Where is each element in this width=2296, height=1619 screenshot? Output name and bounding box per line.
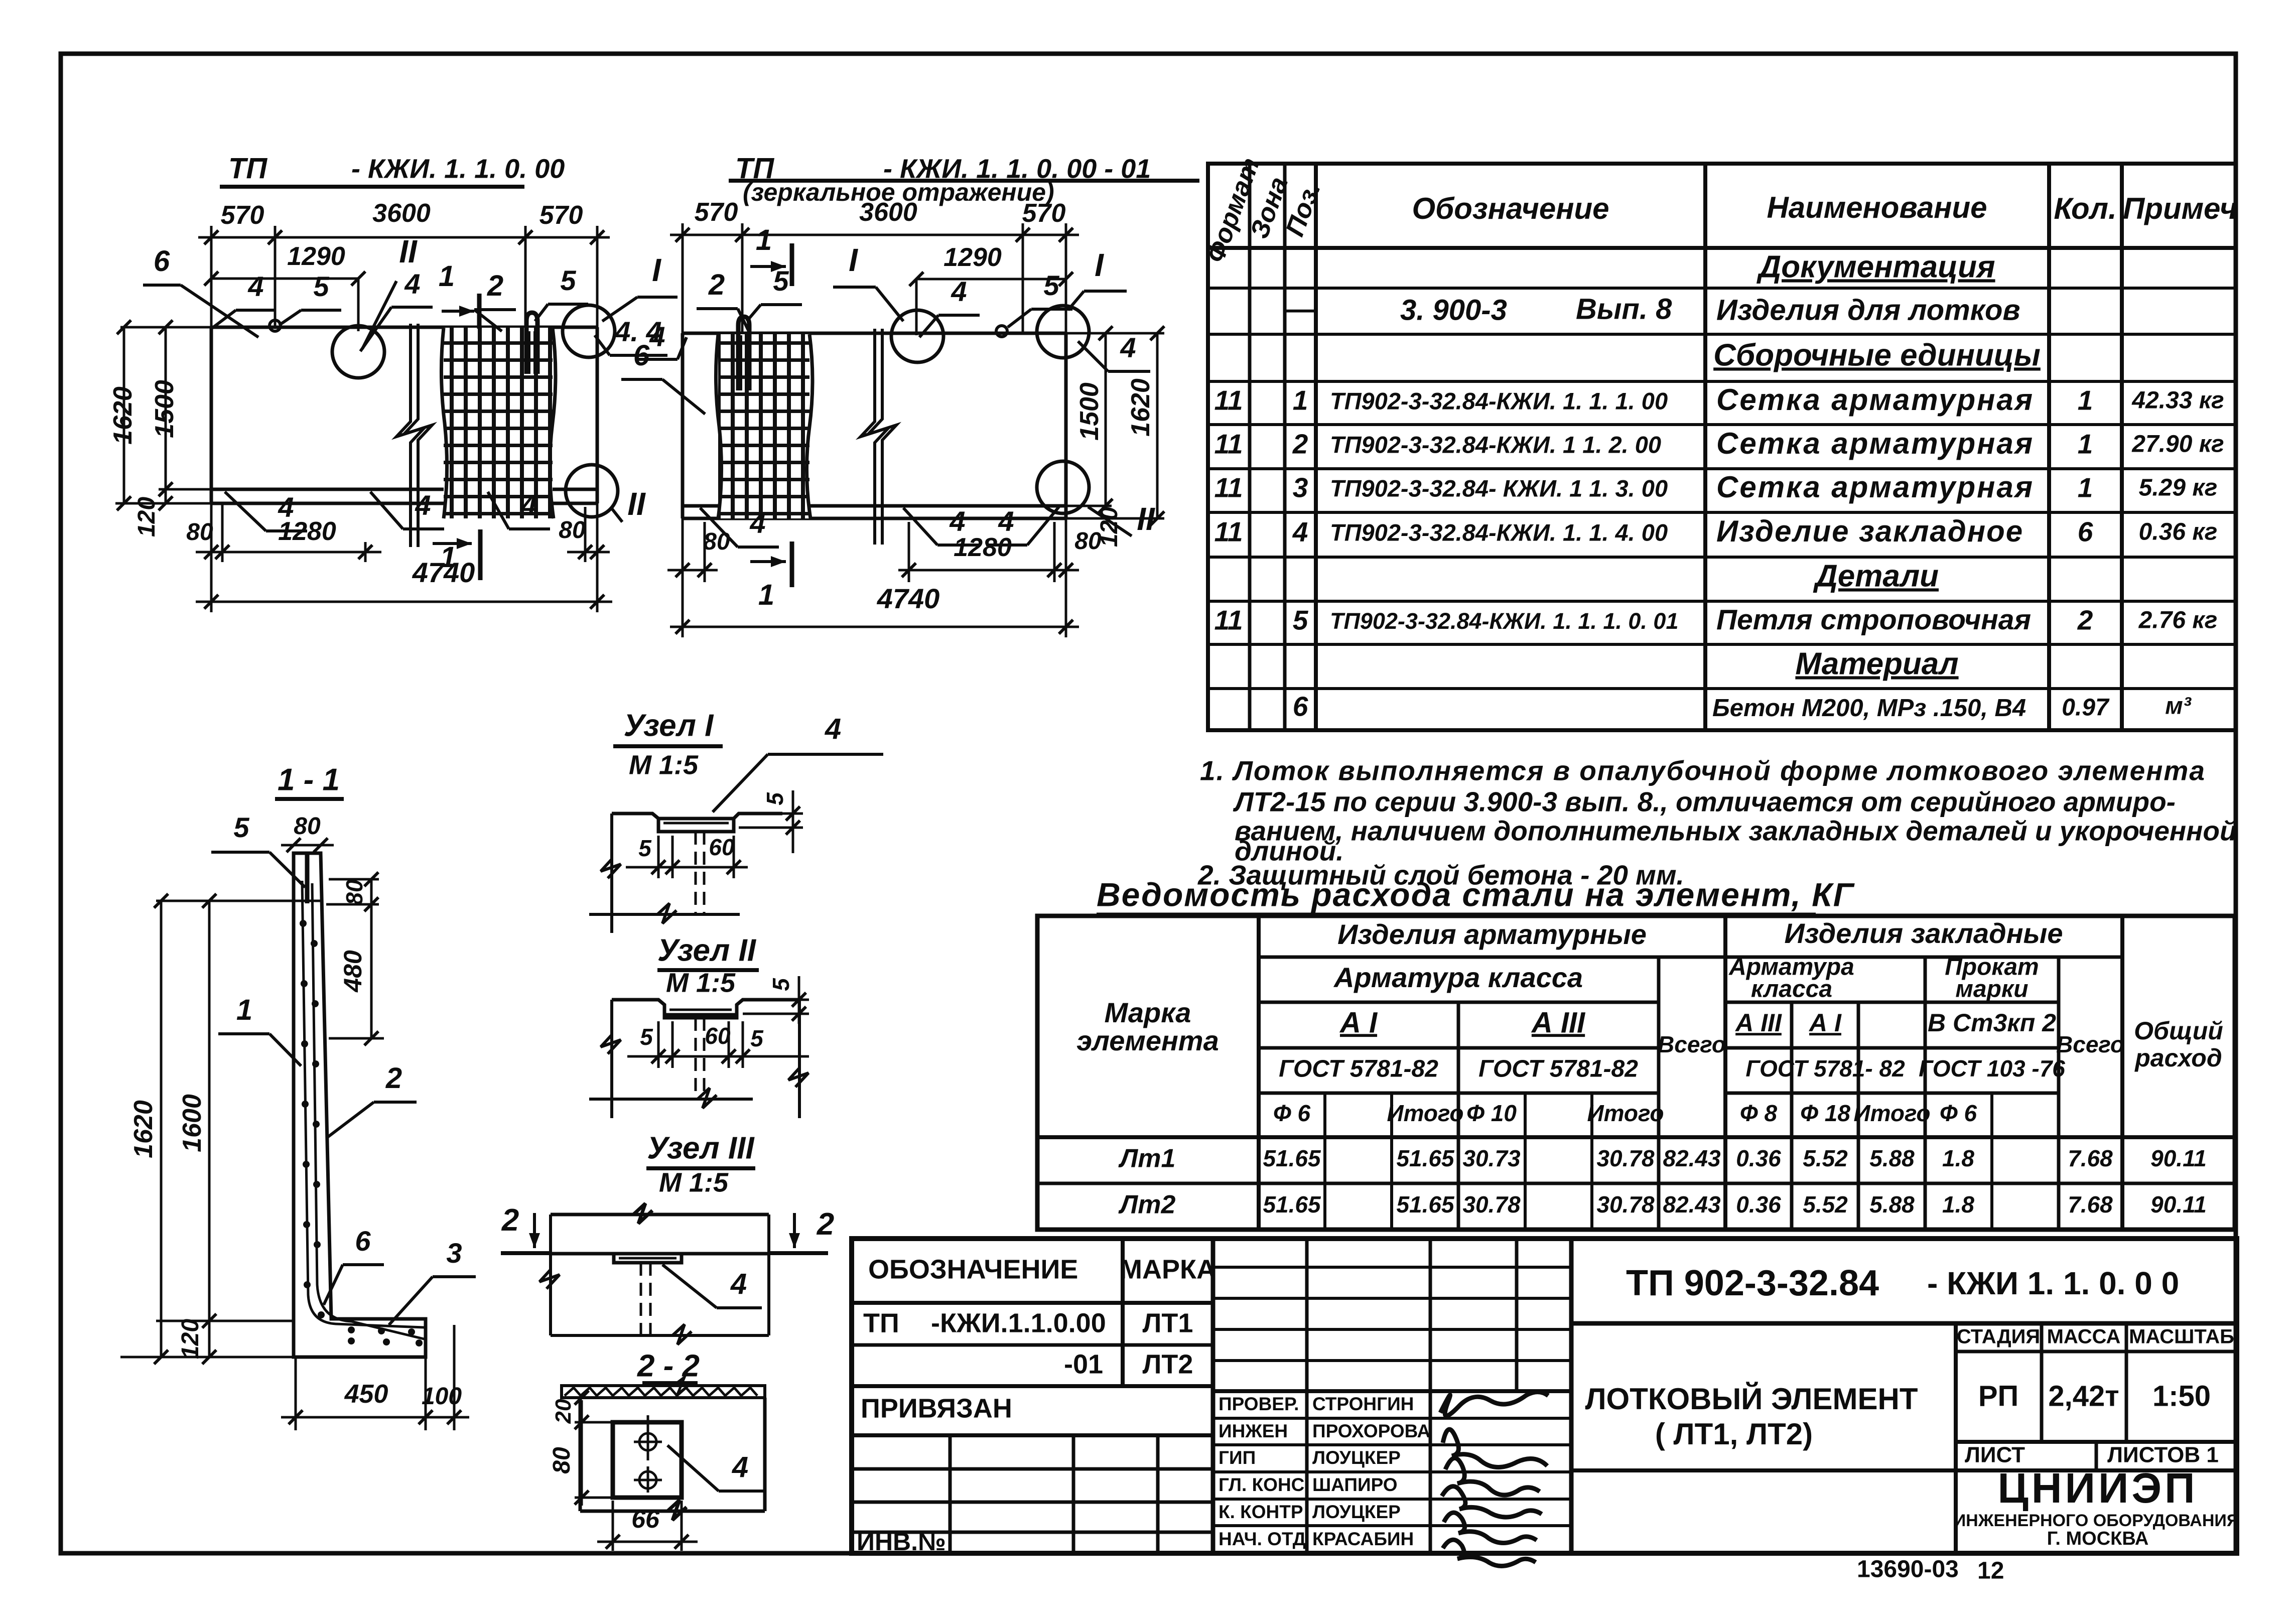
svg-text:4: 4 (1292, 516, 1308, 548)
svg-text:1: 1 (236, 994, 252, 1026)
svg-text:27.90 кг: 27.90 кг (2131, 431, 2224, 458)
signature rows labels (1219, 1394, 1430, 1549)
svg-text:ЦНИИЭП: ЦНИИЭП (1998, 1464, 2198, 1512)
svg-text:ГОСТ 103 -76: ГОСТ 103 -76 (1919, 1055, 2065, 1082)
svg-text:1290: 1290 (287, 242, 345, 271)
svg-text:90.11: 90.11 (2150, 1191, 2207, 1218)
svg-text:Узел II: Узел II (657, 933, 757, 968)
svg-text:Петля строповочная: Петля строповочная (1716, 604, 2031, 636)
svg-text:2 - 2: 2 - 2 (637, 1348, 700, 1383)
uzel I slab and plate (589, 814, 782, 933)
svg-text:1290: 1290 (943, 243, 1002, 272)
svg-text:1620: 1620 (1126, 378, 1155, 437)
svg-text:480: 480 (339, 950, 367, 993)
svg-text:12: 12 (1977, 1558, 2004, 1584)
svg-text:М 1:5: М 1:5 (659, 1167, 729, 1197)
svg-text:4: 4 (1120, 332, 1136, 363)
svg-text:5: 5 (313, 271, 329, 302)
svg-text:МАССА: МАССА (2047, 1326, 2121, 1348)
bottom dim 66 on 2-2 (597, 1501, 698, 1551)
svg-text:5: 5 (560, 264, 576, 296)
svg-text:Лт2: Лт2 (1118, 1190, 1176, 1220)
svg-text:120: 120 (177, 1319, 204, 1359)
overall dim 4740 plan2 (670, 626, 1079, 628)
svg-text:I: I (849, 242, 858, 278)
svg-text:4: 4 (415, 489, 431, 521)
svg-text:51.65: 51.65 (1263, 1191, 1321, 1218)
svg-text:5: 5 (762, 792, 788, 805)
svg-text:5.88: 5.88 (1869, 1145, 1915, 1171)
svg-text:5.29 кг: 5.29 кг (2139, 475, 2218, 501)
dim 80 wall thickness section (281, 844, 334, 847)
svg-text:НАЧ. ОТД: НАЧ. ОТД (1219, 1529, 1306, 1549)
svg-text:4: 4 (730, 1268, 747, 1300)
svg-text:90.11: 90.11 (2150, 1145, 2207, 1171)
svg-text:Изделие закладное: Изделие закладное (1716, 514, 2023, 548)
section mark 1 bottom plan1 (478, 529, 483, 580)
svg-text:570: 570 (221, 201, 264, 230)
element outline plan 2 (683, 333, 1066, 518)
svg-text:Обозначение: Обозначение (1412, 192, 1609, 225)
svg-text:570: 570 (695, 198, 738, 227)
dim 1290 plan1 (211, 278, 358, 280)
svg-text:5: 5 (773, 265, 789, 297)
svg-text:120: 120 (133, 497, 160, 537)
svg-text:- КЖИ. 1. 1. 0. 00: - КЖИ. 1. 1. 0. 00 (351, 154, 565, 184)
svg-text:СТРОНГИН: СТРОНГИН (1312, 1394, 1414, 1414)
hatched screed strip 2-2 (562, 1377, 765, 1398)
svg-text:4740: 4740 (412, 557, 475, 588)
svg-text:4: 4 (949, 505, 965, 537)
svg-text:1: 1 (439, 260, 455, 293)
svg-text:80: 80 (186, 519, 213, 546)
svg-text:Материал: Материал (1795, 646, 1958, 681)
svg-text:30.73: 30.73 (1462, 1145, 1521, 1171)
svg-text:5.52: 5.52 (1803, 1145, 1848, 1171)
section mark 1 top plan2 (790, 243, 794, 286)
svg-text:Ф 10: Ф 10 (1466, 1100, 1517, 1126)
svg-text:5: 5 (750, 1025, 764, 1051)
svg-text:80: 80 (703, 528, 730, 555)
svg-text:ТП: ТП (228, 152, 267, 185)
svg-text:МАРКА: МАРКА (1120, 1254, 1216, 1284)
svg-text:66: 66 (631, 1505, 660, 1533)
svg-text:1280: 1280 (278, 517, 336, 546)
svg-text:I: I (1095, 247, 1104, 283)
svg-text:элемента: элемента (1076, 1025, 1219, 1056)
svg-text:11: 11 (1214, 385, 1243, 416)
svg-text:0.36: 0.36 (1736, 1145, 1781, 1171)
svg-text:100: 100 (422, 1383, 462, 1410)
svg-text:Итого: Итого (1854, 1100, 1931, 1126)
section mark 1 top plan1 (477, 294, 482, 329)
svg-text:51.65: 51.65 (1396, 1145, 1455, 1171)
bottom dim 80/1280 plan1 (196, 503, 381, 562)
svg-text:ЛТ2: ЛТ2 (1143, 1349, 1193, 1379)
svg-text:—: — (1285, 293, 1315, 325)
svg-text:4740: 4740 (877, 583, 940, 614)
svg-text:ПРОХОРОВА: ПРОХОРОВА (1312, 1421, 1430, 1441)
title block left texts (857, 1254, 1216, 1556)
svg-text:82.43: 82.43 (1663, 1145, 1721, 1171)
lifting loop plan1 (526, 313, 537, 374)
svg-text:80: 80 (559, 517, 586, 544)
stirrup dots section (300, 920, 423, 1346)
svg-text:ТП 902-3-32.84: ТП 902-3-32.84 (1626, 1263, 1879, 1303)
svg-text:ПРОВЕР.: ПРОВЕР. (1219, 1394, 1299, 1414)
svg-text:13690-03: 13690-03 (1857, 1556, 1959, 1583)
svg-text:4: 4 (998, 505, 1014, 537)
svg-text:4: 4 (732, 1451, 748, 1483)
steel table data row LT2 (1118, 1190, 2207, 1220)
left dims 1620/1500 section (120, 901, 321, 1357)
svg-text:80: 80 (294, 813, 321, 840)
uzel II dims (627, 976, 809, 1068)
reinforcement mesh patch plan 1 (441, 328, 556, 518)
specification table grid (1208, 164, 2236, 730)
svg-text:4: 4 (649, 321, 665, 352)
svg-text:ЛОУЦКЕР: ЛОУЦКЕР (1312, 1502, 1401, 1522)
svg-text:80: 80 (1074, 528, 1102, 555)
svg-text:К. КОНТР: К. КОНТР (1219, 1502, 1303, 1522)
svg-text:ванием, наличием дополнительн: ванием, наличием дополнительных закладны… (1235, 816, 2237, 847)
svg-text:Итого: Итого (1387, 1100, 1464, 1126)
svg-text:расход: расход (2134, 1044, 2222, 1072)
svg-text:ЛОУЦКЕР: ЛОУЦКЕР (1312, 1447, 1401, 1468)
svg-text:4: 4 (520, 489, 536, 521)
specification table header texts (1201, 154, 1326, 266)
inner rebar lines section (302, 881, 424, 1339)
svg-text:-КЖИ.1.1.0.00: -КЖИ.1.1.0.00 (931, 1308, 1106, 1338)
svg-text:11: 11 (1214, 472, 1243, 503)
svg-text:Наименование: Наименование (1767, 191, 1987, 224)
right dims 1500/1620 plan2 (1066, 333, 1164, 518)
section marks 2-2 on uzel III (501, 1203, 834, 1253)
svg-text:СТАДИЯ: СТАДИЯ (1957, 1326, 2040, 1348)
svg-text:ИНЖЕНЕРНОГО ОБОРУДОВАНИЯ: ИНЖЕНЕРНОГО ОБОРУДОВАНИЯ (1954, 1511, 2239, 1530)
svg-text:20: 20 (551, 1399, 576, 1424)
svg-text:А III: А III (1531, 1006, 1586, 1039)
svg-text:Общий: Общий (2134, 1017, 2223, 1045)
svg-text:6: 6 (633, 339, 650, 372)
lifting loop plan2 (738, 317, 749, 390)
svg-text:42.33 кг: 42.33 кг (2131, 387, 2224, 414)
svg-text:Итого: Итого (1587, 1100, 1664, 1126)
svg-text:82.43: 82.43 (1663, 1191, 1721, 1218)
svg-text:А III: А III (1734, 1009, 1782, 1037)
svg-text:1 - 1: 1 - 1 (278, 762, 340, 797)
loop circle small plan2 (996, 326, 1007, 337)
svg-text:0.97: 0.97 (2062, 695, 2110, 721)
svg-text:Изделия для лотков: Изделия для лотков (1716, 294, 2020, 326)
svg-text:ТП902-3-32.84-КЖИ. 1. 1. 4. 00: ТП902-3-32.84-КЖИ. 1. 1. 4. 00 (1330, 519, 1668, 546)
svg-text:Бетон М200, МРз .150, В4: Бетон М200, МРз .150, В4 (1712, 695, 2026, 722)
loop circle small plan1 (269, 320, 281, 331)
svg-text:ПРИВЯЗАН: ПРИВЯЗАН (861, 1393, 1012, 1423)
svg-text:2: 2 (2077, 605, 2093, 636)
svg-text:5: 5 (1043, 269, 1059, 301)
svg-text:2: 2 (1292, 429, 1308, 460)
svg-text:5: 5 (640, 1024, 653, 1050)
loop bar at wall top section (305, 854, 310, 903)
svg-text:1: 1 (2078, 472, 2093, 503)
embedded plate 2-2 (613, 1422, 682, 1498)
svg-text:1: 1 (2078, 429, 2093, 460)
svg-text:Примеч: Примеч (2123, 192, 2237, 225)
handwritten signatures (1440, 1392, 1548, 1566)
svg-text:II: II (399, 233, 418, 269)
svg-text:II: II (627, 486, 646, 522)
svg-text:марки: марки (1955, 976, 2028, 1003)
svg-text:I: I (652, 252, 661, 288)
svg-text:ТП902-3-32.84-КЖИ. 1 1. 2. 00: ТП902-3-32.84-КЖИ. 1 1. 2. 00 (1330, 431, 1661, 458)
svg-text:2: 2 (385, 1062, 402, 1095)
svg-text:1620: 1620 (108, 386, 138, 445)
top dimension line 570/3600/570 plan1 (198, 226, 610, 327)
svg-text:11: 11 (1214, 516, 1243, 548)
uzel II slab and plate (589, 1000, 808, 1118)
svg-text:ШАПИРО: ШАПИРО (1312, 1474, 1398, 1495)
svg-text:М 1:5: М 1:5 (666, 968, 736, 998)
svg-text:Детали: Детали (1813, 559, 1939, 593)
svg-text:2: 2 (817, 1207, 834, 1242)
svg-text:класса: класса (1751, 976, 1832, 1003)
svg-text:ЛИСТ: ЛИСТ (1965, 1443, 2025, 1467)
overall dim 4740 plan1 (196, 601, 612, 603)
svg-text:Арматура класса: Арматура класса (1333, 962, 1583, 993)
svg-text:ТП902-3-32.84-КЖИ. 1. 1. 1. 00: ТП902-3-32.84-КЖИ. 1. 1. 1. 00 (1330, 387, 1668, 414)
svg-text:Ф 8: Ф 8 (1740, 1100, 1778, 1126)
svg-text:2: 2 (501, 1203, 519, 1238)
svg-text:ТП902-3-32.84- КЖИ. 1 1. 3. 00: ТП902-3-32.84- КЖИ. 1 1. 3. 00 (1330, 475, 1668, 501)
svg-text:0.36 кг: 0.36 кг (2139, 519, 2218, 546)
svg-text:3: 3 (446, 1237, 462, 1269)
svg-text:II: II (1137, 501, 1155, 537)
svg-text:4: 4 (951, 276, 967, 307)
svg-text:6: 6 (2078, 516, 2093, 548)
svg-text:450: 450 (344, 1380, 388, 1409)
svg-text:РП: РП (1978, 1380, 2018, 1412)
node circle A plan2 (891, 310, 943, 362)
svg-text:1: 1 (1293, 385, 1308, 416)
wall outline section (294, 853, 426, 1357)
svg-text:Сетка арматурная: Сетка арматурная (1716, 427, 2034, 460)
steel table data row LT1 (1118, 1144, 2207, 1173)
svg-text:570: 570 (539, 201, 583, 230)
dim 1290 plan2 (916, 278, 1066, 281)
svg-text:60: 60 (709, 834, 735, 860)
svg-text:ЛТ2-15 по серии 3.900-3 вы: ЛТ2-15 по серии 3.900-3 вып. 8., отличае… (1233, 786, 2176, 818)
svg-text:7.68: 7.68 (2068, 1191, 2113, 1218)
svg-text:1. Лоток выполняется в опал: 1. Лоток выполняется в опалубочной форме… (1200, 755, 2206, 786)
uzel III slab (539, 1203, 769, 1344)
svg-text:2,42т: 2,42т (2048, 1380, 2119, 1412)
poz row 5 (1214, 604, 2217, 636)
svg-text:Узел III: Узел III (647, 1131, 755, 1165)
svg-text:3. 900-3: 3. 900-3 (1400, 294, 1507, 326)
row 3.900-3 (1285, 293, 2020, 326)
svg-text:ТП902-3-32.84-КЖИ. 1. 1. 1. 0.: ТП902-3-32.84-КЖИ. 1. 1. 1. 0. 01 (1330, 608, 1678, 634)
svg-text:5: 5 (768, 978, 794, 991)
svg-text:2.76 кг: 2.76 кг (2138, 607, 2218, 634)
svg-text:6: 6 (355, 1225, 371, 1257)
element outline plan 1 (211, 327, 597, 503)
svg-text:30.78: 30.78 (1596, 1145, 1655, 1171)
svg-text:КРАСАБИН: КРАСАБИН (1312, 1529, 1414, 1549)
svg-text:Марка: Марка (1105, 997, 1191, 1028)
svg-text:А I: А I (1339, 1006, 1378, 1039)
svg-text:ЛИСТОВ 1: ЛИСТОВ 1 (2107, 1443, 2219, 1467)
svg-text:3600: 3600 (372, 199, 431, 228)
svg-text:51.65: 51.65 (1396, 1191, 1455, 1218)
svg-text:Г. МОСКВА: Г. МОСКВА (2047, 1528, 2149, 1549)
break line plan 2 (861, 329, 896, 545)
svg-text:Ф 6: Ф 6 (1940, 1100, 1977, 1126)
svg-text:30.78: 30.78 (1462, 1191, 1521, 1218)
slab body 2-2 (580, 1398, 765, 1520)
svg-text:1: 1 (756, 224, 772, 256)
left dims 1620/1500 plan1 (115, 327, 211, 503)
bottom right dim 80 plan1 (567, 507, 610, 562)
svg-text:5: 5 (1293, 605, 1309, 636)
svg-text:А I: А I (1808, 1009, 1842, 1037)
svg-text:1.8: 1.8 (1942, 1191, 1974, 1218)
svg-text:- КЖИ 1. 1. 0. 0 0: - КЖИ 1. 1. 0. 0 0 (1927, 1265, 2179, 1301)
svg-text:1: 1 (2078, 385, 2093, 416)
poz row 6 concrete (1293, 691, 2192, 722)
svg-text:30.78: 30.78 (1596, 1191, 1655, 1218)
svg-text:ГОСТ 5781-82: ГОСТ 5781-82 (1478, 1056, 1638, 1083)
bottom dim 80 left plan2 (667, 518, 718, 582)
node circle II bottom plan1 (566, 465, 618, 517)
svg-text:ОБОЗНАЧЕНИЕ: ОБОЗНАЧЕНИЕ (868, 1254, 1078, 1284)
svg-text:Изделия закладные: Изделия закладные (1784, 917, 2063, 949)
svg-text:ИНЖЕН: ИНЖЕН (1219, 1421, 1288, 1441)
svg-text:1280: 1280 (954, 533, 1012, 562)
svg-text:Всего: Всего (2056, 1031, 2124, 1057)
svg-text:МАСШТАБ: МАСШТАБ (2129, 1326, 2234, 1348)
svg-text:-01: -01 (1064, 1349, 1103, 1379)
svg-text:ЛОТКОВЫЙ ЭЛЕМЕНТ: ЛОТКОВЫЙ ЭЛЕМЕНТ (1585, 1382, 1918, 1416)
svg-text:4: 4 (749, 507, 765, 539)
svg-text:4: 4 (404, 268, 420, 300)
svg-text:80: 80 (341, 879, 367, 905)
svg-text:М 1:5: М 1:5 (629, 750, 699, 780)
svg-text:ИНВ.№: ИНВ.№ (857, 1528, 946, 1556)
node circle II top plan1 (332, 326, 384, 378)
reinforcement mesh patch plan 2 (716, 334, 813, 518)
svg-text:2: 2 (708, 268, 725, 301)
node circle I plan1 (563, 305, 615, 357)
svg-text:Всего: Всего (1658, 1031, 1726, 1057)
node circle B plan2 (1037, 306, 1089, 358)
bottom dim 1280/80 plan2 (898, 522, 1079, 582)
svg-text:ГОСТ 5781- 82: ГОСТ 5781- 82 (1745, 1055, 1905, 1082)
svg-text:Узел I: Узел I (624, 708, 714, 743)
svg-text:2: 2 (487, 269, 503, 302)
svg-text:Сетка арматурная: Сетка арматурная (1716, 470, 2034, 504)
svg-text:6: 6 (1293, 691, 1308, 722)
svg-text:Сетка арматурная: Сетка арматурная (1716, 383, 2034, 417)
svg-text:ГОСТ 5781-82: ГОСТ 5781-82 (1279, 1056, 1438, 1083)
svg-text:Ведомость расхода стали на: Ведомость расхода стали на элемент, КГ (1097, 876, 1855, 913)
node circle C plan2 (1037, 461, 1089, 513)
svg-text:5.88: 5.88 (1869, 1191, 1915, 1218)
svg-text:Сборочные единицы: Сборочные единицы (1713, 338, 2041, 372)
svg-text:570: 570 (1022, 199, 1066, 228)
svg-text:11: 11 (1214, 605, 1243, 636)
stadiya massa masshtab (1957, 1326, 2234, 1348)
svg-text:Кол.: Кол. (2054, 192, 2116, 225)
svg-text:ТП: ТП (863, 1308, 899, 1338)
svg-text:4: 4 (825, 713, 841, 745)
poz rows 1-4 (1214, 383, 2224, 548)
svg-text:11: 11 (1214, 429, 1243, 460)
svg-text:1600: 1600 (178, 1094, 207, 1152)
svg-text:60: 60 (705, 1023, 731, 1049)
svg-text:1: 1 (758, 579, 774, 611)
svg-text:Изделия арматурные: Изделия арматурные (1337, 918, 1647, 950)
svg-text:Ф 6: Ф 6 (1273, 1100, 1311, 1126)
svg-text:6: 6 (154, 245, 170, 278)
section mark 1 bottom plan2 (790, 542, 794, 587)
svg-text:Лт1: Лт1 (1118, 1144, 1176, 1173)
svg-text:ГЛ. КОНС.: ГЛ. КОНС. (1219, 1474, 1310, 1495)
svg-text:1.8: 1.8 (1942, 1145, 1974, 1171)
svg-text:м³: м³ (2165, 693, 2192, 720)
svg-text:3: 3 (1293, 472, 1308, 503)
anchor symbols 2-2 (634, 1415, 662, 1506)
svg-text:1620: 1620 (129, 1100, 158, 1158)
svg-text:Вып. 8: Вып. 8 (1576, 293, 1672, 325)
svg-text:ГИП: ГИП (1219, 1447, 1256, 1468)
svg-text:4: 4 (247, 271, 263, 302)
svg-text:( ЛТ1, ЛТ2): ( ЛТ1, ЛТ2) (1655, 1417, 1813, 1451)
top dimension line 570/3600/570 plan2 (670, 223, 1079, 333)
svg-text:В Ст3кп 2: В Ст3кп 2 (1928, 1009, 2056, 1037)
svg-text:5: 5 (233, 812, 249, 843)
svg-text:3600: 3600 (859, 198, 917, 227)
svg-text:1500: 1500 (1075, 382, 1104, 441)
svg-text:1:50: 1:50 (2152, 1380, 2211, 1412)
dims 20/80 on 2-2 (575, 1400, 617, 1506)
svg-text:80: 80 (549, 1447, 575, 1474)
svg-text:5.52: 5.52 (1803, 1191, 1848, 1218)
svg-text:51.65: 51.65 (1263, 1145, 1321, 1171)
bottom dims 450/100 section (281, 1325, 469, 1430)
svg-text:Документация: Документация (1756, 249, 1995, 284)
uzel I dims (626, 790, 803, 878)
right dims 80/480 section (326, 879, 384, 1038)
steel table header texts (1076, 917, 2063, 1056)
svg-text:0.36: 0.36 (1736, 1191, 1781, 1218)
svg-text:5: 5 (638, 835, 652, 861)
break line plan 1 (396, 324, 432, 547)
svg-text:7.68: 7.68 (2068, 1145, 2113, 1171)
svg-text:1500: 1500 (150, 380, 179, 438)
svg-text:ЛТ1: ЛТ1 (1143, 1308, 1193, 1338)
svg-text:Ф 18: Ф 18 (1800, 1100, 1850, 1126)
